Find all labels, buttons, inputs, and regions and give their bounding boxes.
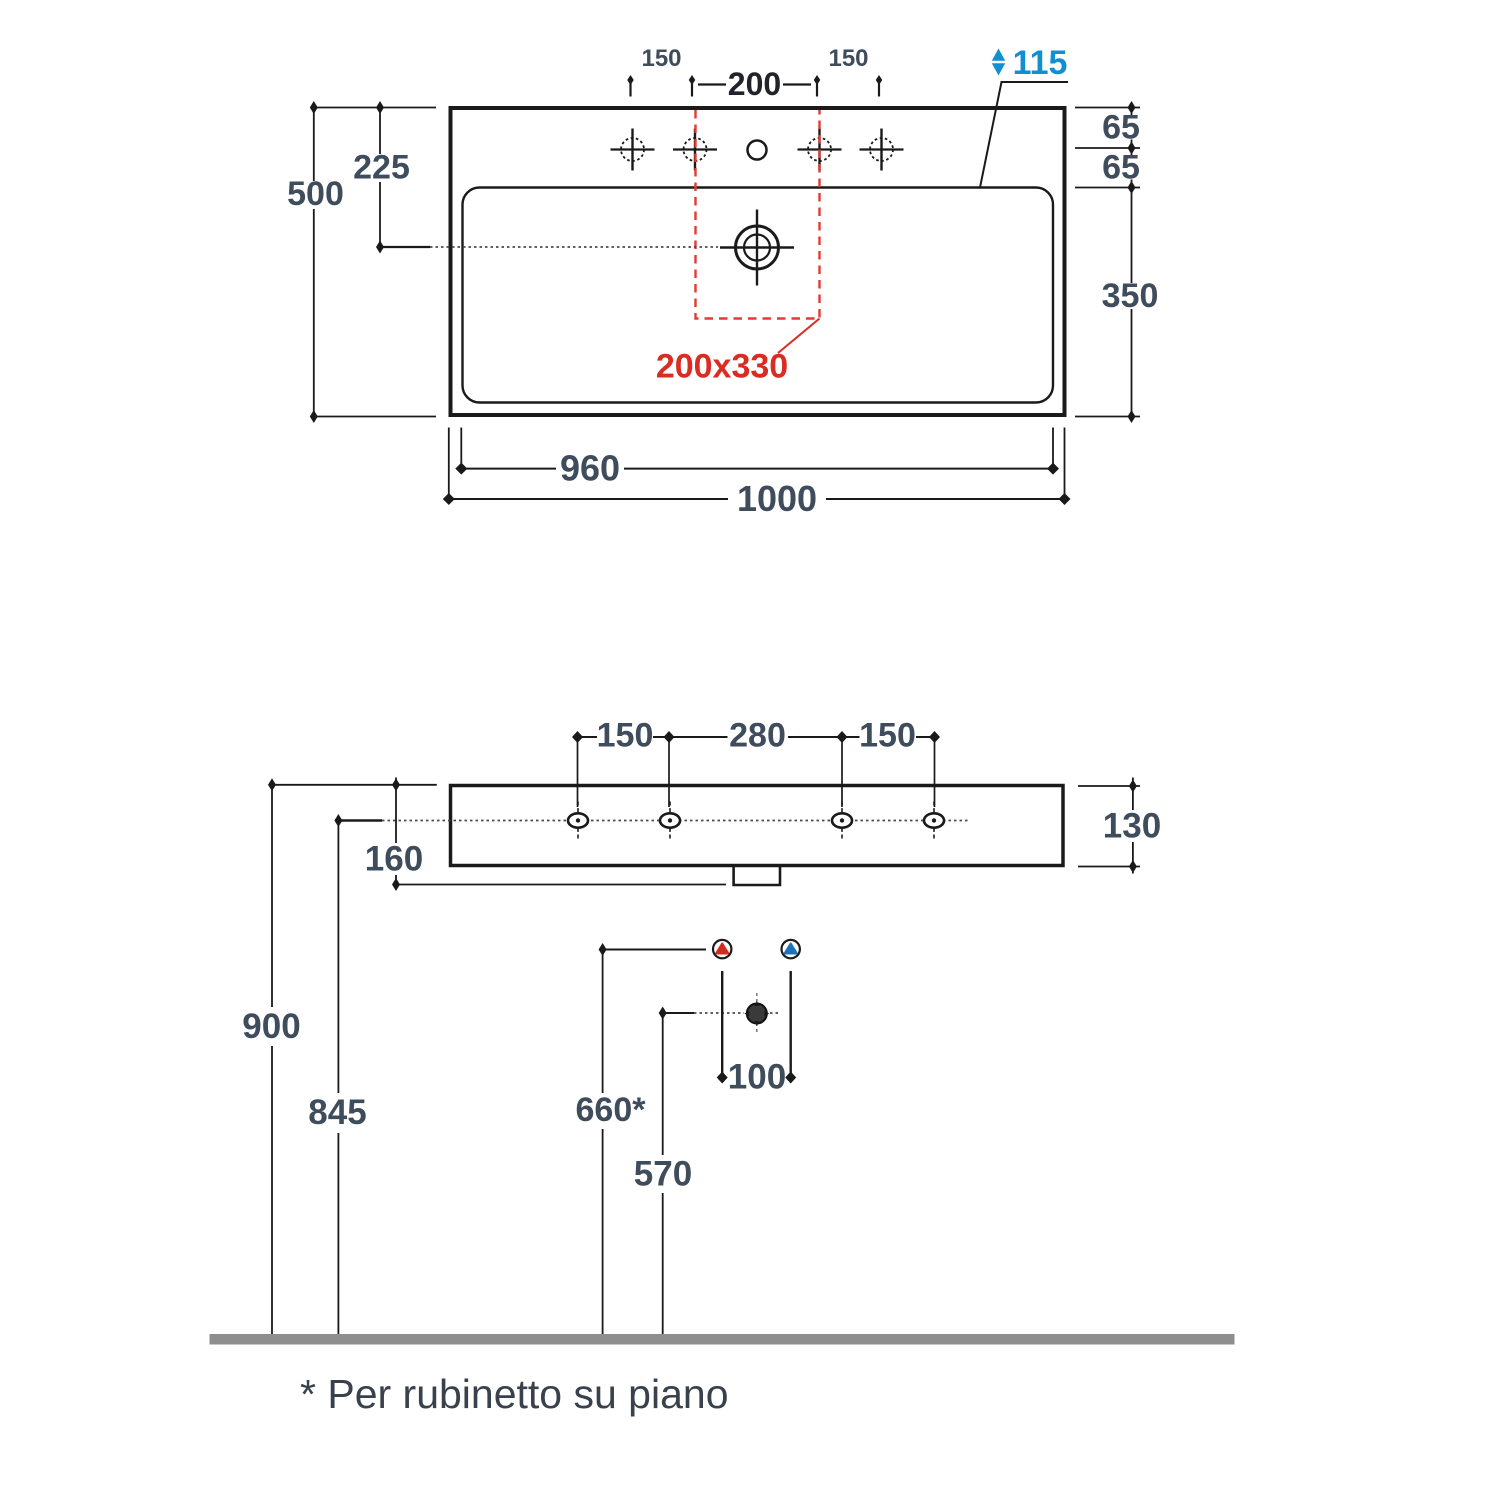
svg-text:350: 350 — [1102, 277, 1159, 315]
svg-text:150: 150 — [597, 717, 654, 755]
svg-text:100: 100 — [728, 1058, 786, 1097]
svg-text:150: 150 — [859, 717, 916, 755]
svg-text:1000: 1000 — [737, 478, 817, 519]
svg-text:160: 160 — [365, 840, 423, 879]
svg-text:130: 130 — [1103, 807, 1161, 846]
svg-text:65: 65 — [1102, 109, 1140, 147]
svg-text:960: 960 — [560, 448, 620, 489]
svg-text:280: 280 — [729, 717, 786, 755]
svg-text:65: 65 — [1102, 149, 1140, 187]
svg-text:900: 900 — [242, 1007, 300, 1046]
svg-text:200x330: 200x330 — [656, 348, 788, 386]
svg-text:150: 150 — [828, 45, 868, 72]
svg-text:570: 570 — [634, 1155, 692, 1194]
svg-text:115: 115 — [1013, 44, 1068, 82]
svg-text:225: 225 — [353, 149, 410, 187]
svg-text:845: 845 — [308, 1093, 366, 1132]
svg-text:660*: 660* — [576, 1091, 647, 1129]
svg-text:200: 200 — [728, 66, 781, 102]
svg-text:500: 500 — [287, 175, 344, 213]
svg-text:150: 150 — [641, 45, 681, 72]
svg-text:* Per rubinetto su piano: * Per rubinetto su piano — [300, 1371, 729, 1417]
